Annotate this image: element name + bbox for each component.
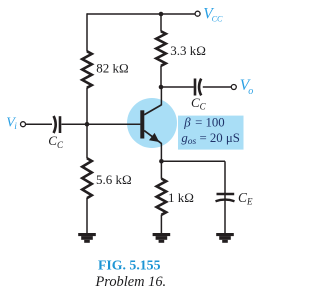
- terminal Vi open circle: [21, 122, 26, 127]
- svg-text:FIG. 5.155: FIG. 5.155: [98, 258, 161, 273]
- capacitor C1 input Cc curved plate: [54, 116, 56, 133]
- transistor Q1 collector stroke: [144, 105, 161, 115]
- wire R1 bottom to base node: [86, 88, 88, 125]
- transistor Q1 emitter stroke: [144, 131, 161, 144]
- node junction base: [85, 122, 90, 127]
- wire R3 bottom to collector node: [160, 66, 162, 87]
- resistor R4 1k zigzag: [157, 179, 167, 215]
- terminal Vo open circle: [231, 85, 236, 90]
- parameter label beta = 100: [183, 116, 224, 130]
- ground symbol right: [216, 233, 234, 243]
- node junction top rail / collector branch: [159, 12, 164, 17]
- wire left rail top (rail to R1): [86, 13, 88, 51]
- value label 5.6 kOhm: [96, 172, 132, 187]
- wire C1 to base node to transistor base: [62, 123, 141, 125]
- net label Vi: [6, 116, 17, 133]
- value label CE: [238, 190, 253, 207]
- value label 1 kOhm: [168, 190, 194, 205]
- capacitor C1 input Cc straight plate: [59, 116, 62, 133]
- resistor R3 3.3k zigzag: [156, 31, 166, 66]
- value label Cc input: [48, 133, 64, 150]
- transistor Q1 base bar: [140, 110, 144, 138]
- svg-text:82 kΩ: 82 kΩ: [96, 61, 128, 76]
- value label Cc output: [191, 95, 207, 112]
- capacitor C2 output Cc curved plate: [199, 79, 201, 96]
- svg-text:5.6 kΩ: 5.6 kΩ: [96, 172, 132, 187]
- capacitor C3 CE curved plate: [216, 200, 235, 202]
- svg-text:CC: CC: [48, 133, 64, 150]
- parameter label gos = 20 uS: [181, 131, 239, 147]
- resistor R2 5.6k zigzag: [82, 158, 92, 198]
- wire collector vertical (rail dot to 3.3k): [160, 14, 162, 32]
- svg-text:Problem 16.: Problem 16.: [95, 274, 167, 290]
- wire emitter vertical to emitter node: [160, 143, 162, 161]
- caption FIG. 5.155: [98, 258, 161, 273]
- svg-text:CC: CC: [191, 95, 207, 112]
- svg-text:β = 100: β = 100: [183, 116, 224, 130]
- ground symbol left: [78, 233, 96, 243]
- capacitor C2 output Cc straight plate: [194, 79, 197, 96]
- wire top rail from R1 top to Vcc terminal: [87, 13, 195, 15]
- svg-text:Vi: Vi: [6, 116, 17, 133]
- wire R2 bottom to ground: [86, 198, 88, 233]
- wire CE branch vertical down through CE cap to ground: [224, 161, 226, 233]
- wire collector node down into transistor: [160, 87, 162, 105]
- svg-text:VCC: VCC: [203, 5, 223, 23]
- ground symbol middle: [153, 233, 171, 243]
- transistor Q1 highlight disc: [127, 98, 177, 148]
- node junction collector: [159, 85, 164, 90]
- value label 3.3 kOhm: [170, 43, 206, 58]
- resistor R1 82k zigzag: [82, 51, 92, 87]
- node junction emitter: [159, 159, 164, 164]
- wire C2 to Vo terminal: [203, 86, 231, 88]
- wire base node down to R2: [86, 124, 88, 158]
- wire emitter node to R4: [160, 161, 162, 179]
- terminal Vcc open circle: [195, 11, 200, 16]
- net label Vcc: [203, 5, 223, 23]
- svg-text:CE: CE: [238, 190, 253, 207]
- info box (beta/gos) background: [178, 116, 244, 150]
- wire collector node to C2: [161, 86, 194, 88]
- net label Vo: [240, 77, 253, 97]
- capacitor C3 CE straight plate: [217, 193, 235, 195]
- wire Vi terminal to C1: [26, 123, 52, 125]
- wire emitter node to CE branch: [161, 160, 225, 162]
- svg-text:Vo: Vo: [240, 77, 253, 97]
- caption Problem 16.: [95, 274, 167, 290]
- transistor Q1 emitter arrow: [149, 133, 159, 142]
- svg-text:3.3 kΩ: 3.3 kΩ: [170, 43, 206, 58]
- value label 82 kOhm: [96, 61, 128, 76]
- wire R4 bottom to ground: [160, 215, 162, 233]
- svg-text:1 kΩ: 1 kΩ: [168, 190, 194, 205]
